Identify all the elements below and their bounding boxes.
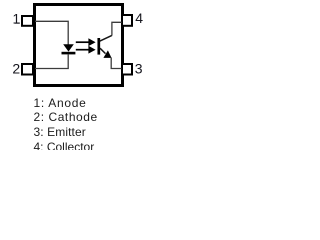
phototransistor Q1 base bar bbox=[97, 38, 100, 55]
IC body bbox=[35, 5, 123, 86]
collector wire to pin 4 bbox=[112, 22, 122, 35]
anode wire bbox=[35, 21, 68, 44]
emitter wire to pin 3 bbox=[111, 58, 121, 69]
light arrow 1 bbox=[76, 38, 96, 46]
transistor collector diagonal bbox=[100, 35, 112, 41]
svg-text:2: 2 bbox=[12, 61, 20, 77]
pin 3 bbox=[122, 64, 132, 75]
svg-text:3: 3 bbox=[135, 61, 143, 77]
light arrow 2 bbox=[76, 46, 96, 54]
pin 4 bbox=[122, 15, 132, 26]
pin 1 bbox=[22, 16, 33, 26]
legend line 2 bbox=[34, 110, 98, 124]
legend line 1 bbox=[34, 96, 87, 110]
legend line 4 bbox=[34, 140, 95, 154]
LED D1 bbox=[62, 44, 76, 53]
transistor emitter diagonal with arrow bbox=[100, 48, 112, 58]
cathode wire bbox=[35, 54, 68, 69]
legend line 3 bbox=[34, 125, 86, 139]
pin 2 bbox=[22, 64, 33, 75]
svg-text:1: 1 bbox=[12, 12, 20, 27]
svg-text:4: 4 bbox=[135, 10, 143, 26]
